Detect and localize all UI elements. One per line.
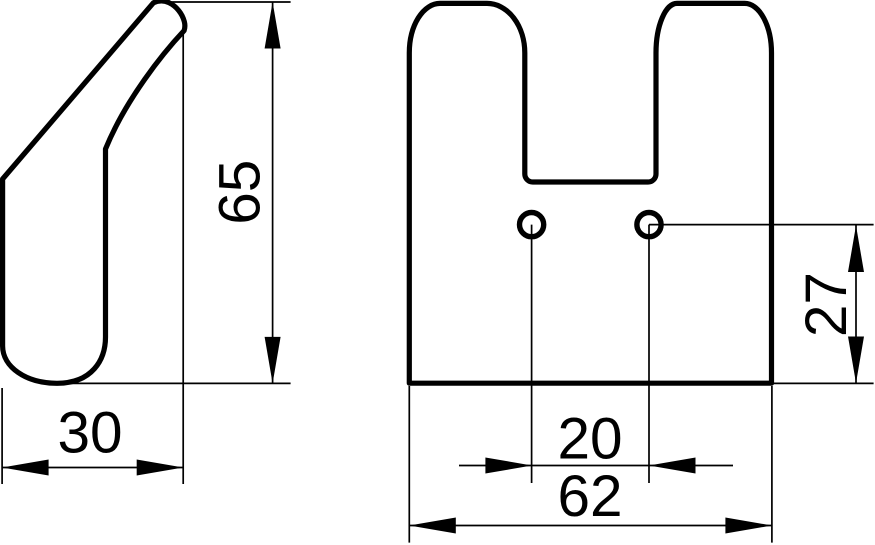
arrowhead 62 right bbox=[725, 518, 772, 534]
extension line from right hole down bbox=[648, 225, 650, 483]
arrowhead 30 right bbox=[137, 460, 184, 476]
svg-text:65: 65 bbox=[208, 160, 273, 225]
dimension line 62 bbox=[409, 525, 772, 527]
extension line from left hole down bbox=[531, 225, 533, 483]
dimension line 30 bbox=[2, 467, 183, 469]
dimension line 27 bbox=[855, 225, 857, 384]
hole right bbox=[637, 213, 661, 237]
hook front-view outline (right view) bbox=[409, 3, 771, 383]
extension line 30 left bbox=[1, 388, 3, 484]
svg-text:62: 62 bbox=[557, 464, 622, 529]
extension line 62 right bbox=[771, 386, 773, 543]
svg-text:20: 20 bbox=[557, 407, 622, 472]
extension line top (65 dim) bbox=[157, 1, 291, 3]
arrowhead 65 up bbox=[265, 2, 281, 49]
extension line from right hole to right (27 dim) bbox=[649, 224, 874, 226]
arrowhead 20 left bbox=[485, 458, 532, 474]
arrowhead 30 left bbox=[2, 460, 49, 476]
svg-text:30: 30 bbox=[57, 400, 122, 465]
extension line 62 left bbox=[408, 386, 410, 543]
arrowhead 62 left bbox=[409, 518, 456, 534]
extension line bottom right (27 dim) bbox=[772, 382, 874, 384]
arrowhead 27 up bbox=[848, 226, 864, 273]
arrowhead 27 down bbox=[848, 337, 864, 384]
hook side-view outline (left view) bbox=[3, 1, 185, 383]
arrowhead 20 right bbox=[649, 458, 696, 474]
dimension line 65 bbox=[272, 2, 274, 383]
arrowhead 65 down bbox=[265, 337, 281, 384]
extension line bottom (65 dim) bbox=[60, 382, 291, 384]
extension line 30 right bbox=[182, 28, 184, 484]
svg-text:27: 27 bbox=[794, 272, 859, 337]
hole left bbox=[520, 213, 544, 237]
dimension line 20 bbox=[459, 465, 733, 467]
